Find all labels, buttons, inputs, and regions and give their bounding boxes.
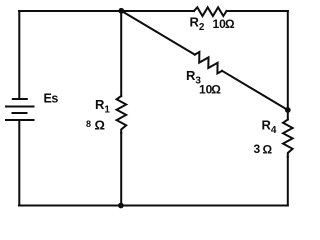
node junction top [118,8,124,14]
wire right upper [287,11,289,110]
wire top-left segment [19,10,194,12]
node junction bottom [118,203,124,209]
svg-text:R4: R4 [262,118,277,137]
wire middle upper [120,11,122,96]
wire diagonal upper [121,11,195,55]
svg-text:Es: Es [44,92,59,106]
svg-text:Ω: Ω [95,118,105,133]
node junction right [285,107,291,113]
resistor R2 [194,7,227,16]
svg-text:R1: R1 [95,97,110,116]
resistor R3 [195,52,222,73]
wire diagonal lower [222,71,288,110]
wire middle lower [120,133,122,206]
svg-text:Ω: Ω [263,143,273,157]
svg-text:3: 3 [254,142,261,156]
wire right middle (node to R4) [287,110,289,120]
wire top-right segment [227,10,288,12]
battery Es [6,99,34,120]
svg-text:8: 8 [86,119,91,129]
wire left lower (battery to bottom) [18,120,20,206]
resistor R1 [117,96,127,133]
wire right lower [287,157,289,206]
wire left upper (to battery) [18,11,20,99]
resistor R4 [283,120,293,158]
svg-text:Ω: Ω [211,83,221,97]
svg-text:Ω: Ω [225,17,235,31]
wire bottom [19,205,288,207]
